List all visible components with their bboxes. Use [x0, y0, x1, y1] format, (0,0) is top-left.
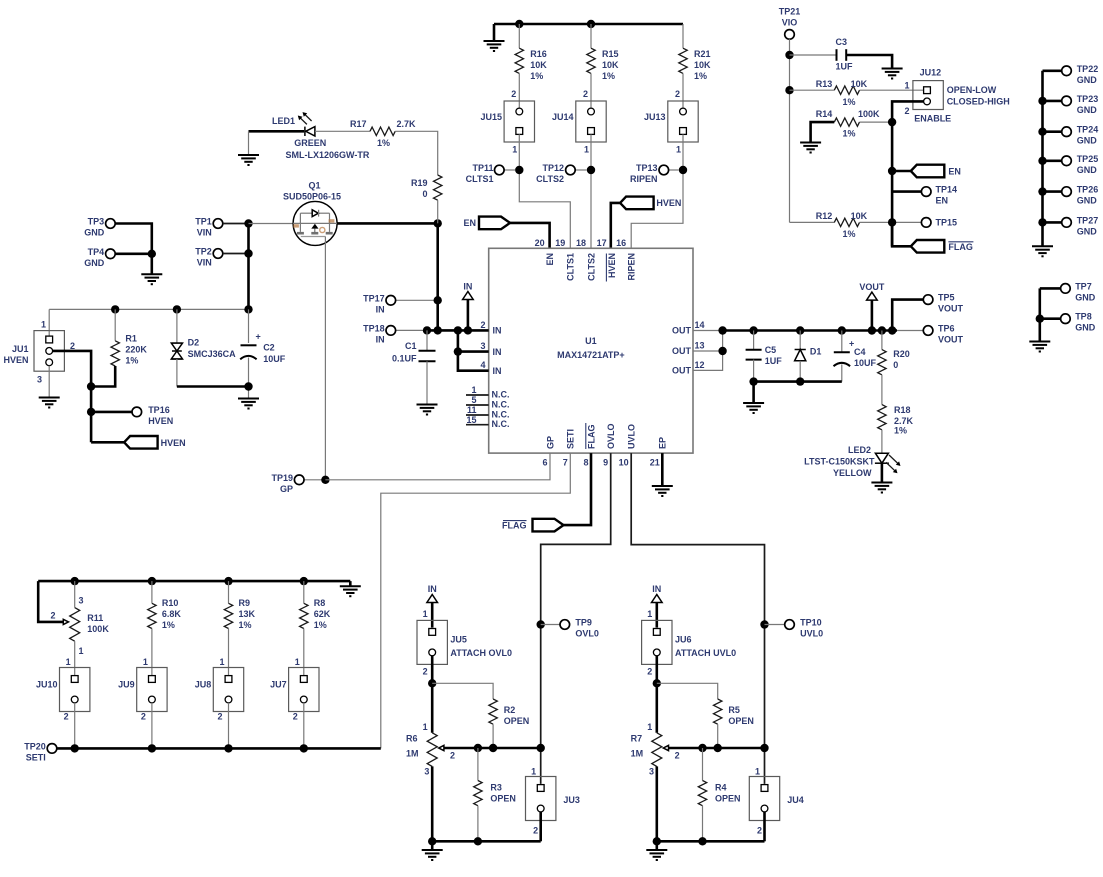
junction SETI/JU10 — [71, 744, 79, 752]
test point TP4 — [84, 247, 115, 268]
svg-text:TP12: TP12 — [542, 163, 564, 173]
wire LED2 cathode stub — [881, 463, 884, 482]
svg-text:VIO: VIO — [782, 18, 798, 28]
svg-text:TP24: TP24 — [1077, 125, 1099, 135]
wire R1 top stub — [114, 309, 116, 340]
power symbol IN (JU6) — [652, 584, 663, 603]
svg-text:C3: C3 — [836, 37, 848, 47]
svg-text:OUT: OUT — [672, 326, 692, 336]
svg-text:1%: 1% — [377, 138, 390, 148]
wire rail ground stub — [349, 581, 352, 586]
jumper JU13 — [644, 101, 698, 142]
junction IN/main — [434, 326, 442, 334]
svg-text:19: 19 — [555, 238, 565, 248]
junction rail/C5 gnd — [749, 377, 757, 385]
svg-text:R5: R5 — [728, 705, 740, 715]
wire VOUT bus — [723, 329, 897, 332]
pin 12 (OUT) of U1 — [672, 360, 705, 376]
ground (C1) — [417, 405, 438, 415]
wire EN node to flag — [892, 170, 911, 173]
pin 10 (UVLO) of U1 — [619, 424, 637, 468]
junction bus/D1 — [796, 326, 804, 334]
svg-text:1: 1 — [143, 657, 148, 667]
wire bottom ground rail (R6) — [432, 840, 541, 843]
pin 17 (HVEN) of U1 — [597, 238, 617, 282]
ground (divider rail) — [340, 586, 361, 596]
LED LED1 GREEN SML-LX1206GW-TR — [272, 112, 370, 160]
junction TP13/RIPEN — [679, 166, 687, 174]
svg-text:1: 1 — [423, 722, 428, 732]
wire R20 top stub — [881, 331, 883, 350]
wire R1 bottom to HVEN node — [91, 366, 115, 387]
svg-text:TP10: TP10 — [800, 618, 822, 628]
svg-text:GND: GND — [1077, 75, 1098, 85]
wire JU12 pin2 to EN node — [892, 101, 924, 246]
svg-text:1M: 1M — [631, 748, 644, 758]
svg-text:2: 2 — [904, 106, 909, 116]
jumper JU15 — [480, 101, 534, 142]
svg-text:OPEN: OPEN — [490, 794, 516, 804]
pin 18 (CLTS2) of U1 — [576, 238, 596, 281]
wire JU15 pin1 to CLTS1 bend — [519, 134, 570, 248]
wire U1 pin14 OUT stub — [693, 330, 723, 332]
capacitor C2 10UF — [240, 332, 286, 364]
wire HVEN flag to U1 pin17 — [611, 203, 620, 248]
svg-text:1%: 1% — [694, 71, 707, 81]
svg-text:IN: IN — [652, 584, 661, 594]
wire R7 bottom — [655, 766, 658, 841]
svg-text:JU6: JU6 — [675, 635, 692, 645]
wire JU5 pin2 down — [431, 656, 434, 733]
svg-text:1: 1 — [584, 145, 589, 155]
wire C2 top stub — [248, 309, 250, 343]
wire R14 to EN node — [860, 121, 893, 123]
svg-text:2.7K: 2.7K — [397, 119, 417, 129]
svg-text:TP20: TP20 — [24, 741, 46, 751]
capacitor C3 1UF — [835, 37, 853, 72]
svg-text:R20: R20 — [893, 349, 910, 359]
svg-text:FLAG: FLAG — [948, 242, 973, 252]
junction bus/VOUT arrow — [868, 326, 876, 334]
wire EP pin21 ground stub — [661, 453, 664, 486]
svg-text:Q1: Q1 — [308, 181, 320, 191]
wire R8 top stub — [303, 581, 305, 603]
wire TP1 to VIN node — [223, 223, 249, 225]
potentiometer R6 1M — [406, 722, 455, 776]
test point TP23 — [1043, 94, 1099, 115]
junction SETI/JU9 — [148, 744, 156, 752]
jumper JU7 — [270, 668, 319, 712]
wire R19 bottom to drain node — [437, 200, 439, 223]
junction SETI/JU8 — [224, 744, 232, 752]
wire R15 top stub — [590, 24, 592, 48]
test point TP19 — [271, 473, 325, 494]
junction TP17/IN — [434, 296, 442, 304]
svg-text:JU5: JU5 — [450, 635, 467, 645]
wire drain node down to IN net — [436, 223, 439, 330]
svg-text:GND: GND — [1075, 323, 1096, 333]
ground (output caps) — [743, 403, 764, 413]
test point TP15 — [921, 217, 957, 227]
svg-text:HVEN: HVEN — [3, 355, 28, 365]
jumper JU9 — [118, 668, 167, 712]
test point TP11 — [466, 163, 515, 184]
svg-text:1%: 1% — [843, 129, 856, 139]
junction rail/R3 — [474, 837, 482, 845]
jumper JU6 ATTACH UVL0 — [642, 620, 737, 664]
junction chain/TP8 — [1036, 315, 1044, 323]
junction rail/C2 — [244, 305, 252, 313]
svg-text:HVEN: HVEN — [656, 198, 681, 208]
wire TP22-TP27 ground chain — [1041, 71, 1044, 247]
svg-text:62K: 62K — [314, 609, 331, 619]
wire R3 bottom — [477, 806, 479, 842]
svg-text:R18: R18 — [894, 405, 911, 415]
test point TP2 — [195, 247, 223, 268]
svg-text:FLAG: FLAG — [586, 425, 596, 450]
pin 15 (N.C.) of U1 — [466, 415, 510, 429]
junction bus/C5 — [749, 326, 757, 334]
svg-text:TP3: TP3 — [88, 217, 105, 227]
svg-text:N.C.: N.C. — [492, 410, 510, 420]
wire R6 wiper row — [444, 747, 541, 750]
svg-text:1: 1 — [647, 609, 652, 619]
junction C2/ground rail — [244, 382, 252, 390]
svg-text:TP18: TP18 — [363, 323, 385, 333]
svg-text:1%: 1% — [162, 620, 175, 630]
test point TP22 — [1043, 64, 1099, 85]
wire VIO to R13 — [790, 89, 835, 91]
svg-text:OUT: OUT — [672, 366, 692, 376]
svg-text:TP15: TP15 — [936, 217, 958, 227]
resistor R18 — [878, 405, 914, 436]
test point TP9 — [541, 618, 599, 639]
ground (TP7/TP8) — [1029, 342, 1050, 352]
svg-text:1: 1 — [79, 646, 84, 656]
svg-text:RIPEN: RIPEN — [627, 253, 637, 281]
test point TP1 — [195, 217, 223, 238]
pin 4 (IN) of U1 — [480, 360, 501, 376]
wire JU3 pin2 to rail — [539, 812, 542, 841]
wire EN flag to U1 pin20 — [510, 223, 550, 248]
svg-text:TP27: TP27 — [1077, 215, 1099, 225]
wire R21 to JU13 pin2 — [682, 73, 684, 108]
wire LED1 ground stub — [248, 131, 250, 155]
svg-text:GP: GP — [280, 484, 293, 494]
wire Q1 gate down to GP net — [324, 237, 326, 480]
svg-text:TP26: TP26 — [1077, 185, 1099, 195]
test point TP24 — [1043, 125, 1099, 146]
pin 19 (CLTS1) of U1 — [555, 238, 575, 281]
wire U1 pin13 OUT stub — [693, 350, 723, 352]
resistor R2 OPEN — [489, 699, 529, 726]
svg-text:2: 2 — [70, 341, 75, 351]
svg-text:20: 20 — [535, 238, 545, 248]
svg-text:OPEN: OPEN — [504, 716, 530, 726]
svg-text:TP9: TP9 — [575, 618, 592, 628]
junction EN/flag — [888, 167, 896, 175]
svg-text:TP5: TP5 — [938, 293, 955, 303]
svg-text:YELLOW: YELLOW — [833, 468, 872, 478]
svg-text:0.1UF: 0.1UF — [392, 353, 417, 363]
svg-text:12: 12 — [695, 360, 705, 370]
svg-text:CLTS2: CLTS2 — [586, 253, 596, 281]
svg-text:0: 0 — [893, 360, 898, 370]
wire TP5 riser — [892, 300, 923, 331]
resistor R14 — [816, 109, 880, 139]
net flag EN (JU12 section) — [911, 165, 961, 178]
net flag HVEN (JU1 section) — [124, 436, 186, 449]
wire JU7 pin2 to SETI rail — [303, 703, 305, 749]
jumper JU14 — [552, 101, 606, 142]
svg-text:3: 3 — [424, 766, 429, 776]
svg-text:ATTACH OVL0: ATTACH OVL0 — [450, 648, 512, 658]
svg-text:R8: R8 — [314, 598, 326, 608]
resistor R10 — [148, 598, 182, 630]
junction chain/TP24 — [1038, 128, 1046, 136]
svg-text:ENABLE: ENABLE — [914, 114, 951, 124]
wire SETI rail — [57, 747, 381, 750]
svg-text:JU10: JU10 — [36, 679, 58, 689]
svg-text:1UF: 1UF — [765, 356, 783, 366]
svg-text:IN: IN — [376, 304, 385, 314]
junction JU5/R2 — [428, 679, 436, 687]
jumper JU5 ATTACH OVL0 — [417, 620, 512, 664]
svg-text:OPEN: OPEN — [715, 794, 741, 804]
svg-text:1: 1 — [647, 722, 652, 732]
svg-text:EN: EN — [936, 196, 949, 206]
wire R7 wiper row — [669, 747, 765, 750]
wire TP2 to VIN node — [223, 253, 249, 255]
wire TP4 to ground node — [115, 253, 152, 256]
wire R10 to jumper — [151, 629, 153, 676]
junction EN/R14 — [888, 118, 896, 126]
svg-text:1: 1 — [755, 766, 760, 776]
pin 9 (OVLO) of U1 — [603, 423, 616, 467]
wire D2/C2 bottom rail — [177, 385, 249, 388]
svg-text:2: 2 — [293, 712, 298, 722]
svg-text:10: 10 — [619, 458, 629, 468]
svg-text:C1: C1 — [405, 341, 417, 351]
svg-text:GND: GND — [84, 258, 105, 268]
svg-text:TP16: TP16 — [148, 405, 170, 415]
test point TP25 — [1043, 154, 1099, 175]
svg-text:1: 1 — [904, 81, 909, 91]
svg-text:JU12: JU12 — [920, 68, 942, 78]
svg-text:JU4: JU4 — [787, 795, 804, 805]
wire top pull-down rail (CLTS1/CLTS2/RIPEN to GND) — [494, 23, 683, 26]
wire JU10 pin2 to SETI rail — [74, 703, 76, 749]
test point TP27 — [1043, 215, 1099, 236]
ground (TP22-TP27) — [1032, 246, 1053, 256]
potentiometer R11 100K — [50, 596, 109, 657]
wire D2 bottom to rail — [176, 359, 178, 387]
svg-text:1%: 1% — [602, 71, 615, 81]
svg-text:TP22: TP22 — [1077, 64, 1099, 74]
junction OUT pins 13 — [718, 347, 726, 355]
wire TP15 node to FLAG flag — [892, 222, 911, 246]
junction wiper/R5 — [714, 744, 722, 752]
test point TP26 — [1043, 185, 1099, 206]
svg-text:2: 2 — [757, 826, 762, 836]
test point TP8 — [1040, 312, 1096, 333]
svg-text:JU14: JU14 — [552, 112, 574, 122]
wire IN arrow to JU5 — [431, 603, 434, 628]
svg-text:JU3: JU3 — [563, 795, 580, 805]
wire VIN vertical to rail — [247, 224, 250, 310]
svg-text:R7: R7 — [631, 733, 643, 743]
wire U1 pin10 UVLO down — [631, 453, 764, 784]
jumper JU3 — [526, 777, 580, 821]
resistor R9 — [224, 598, 255, 630]
svg-text:10UF: 10UF — [854, 358, 877, 368]
jumper JU4 — [749, 777, 803, 821]
net flag EN (to U1 pin20) — [463, 217, 510, 230]
wire to U1 pin3 — [458, 350, 489, 353]
svg-text:OPEN: OPEN — [728, 716, 754, 726]
junction SETI/JU7 — [300, 744, 308, 752]
wire R16 to JU15 pin2 — [518, 73, 520, 108]
svg-text:R6: R6 — [406, 733, 418, 743]
svg-text:EN: EN — [948, 167, 961, 177]
svg-text:TP8: TP8 — [1075, 312, 1092, 322]
junction chain/TP25 — [1038, 157, 1046, 165]
wire ground stub — [493, 24, 496, 41]
capacitor C1 0.1UF — [392, 341, 436, 363]
svg-text:EN: EN — [545, 253, 555, 266]
svg-text:1: 1 — [41, 320, 46, 330]
svg-text:TP6: TP6 — [938, 324, 955, 334]
svg-text:7: 7 — [563, 458, 568, 468]
wire JU4 pin2 to rail — [763, 812, 766, 841]
wire Q1 drain to R19 node — [337, 222, 438, 225]
svg-text:VOUT: VOUT — [938, 304, 964, 314]
svg-text:GND: GND — [1077, 136, 1098, 146]
wire ground stub (R6) — [431, 841, 434, 850]
net flag HVEN (to U1 pin17) — [620, 197, 681, 210]
svg-text:1: 1 — [471, 385, 476, 395]
resistor R4 OPEN — [698, 781, 740, 806]
wire JU13 pin1 to U1 RIPEN — [631, 134, 683, 248]
wire R13 to JU12 pin1 — [860, 89, 924, 91]
svg-text:VIN: VIN — [197, 228, 212, 238]
svg-text:2: 2 — [423, 667, 428, 677]
pin 13 (OUT) of U1 — [672, 341, 705, 357]
svg-text:13: 13 — [695, 341, 705, 351]
svg-text:JU7: JU7 — [270, 679, 287, 689]
svg-text:SETI: SETI — [566, 429, 576, 449]
svg-text:1: 1 — [423, 609, 428, 619]
svg-text:R17: R17 — [350, 119, 367, 129]
svg-text:2: 2 — [647, 667, 652, 677]
svg-text:1%: 1% — [239, 620, 252, 630]
wire D1 top stub — [799, 331, 801, 350]
pin 1 (N.C.) of U1 — [466, 385, 510, 399]
wire VOUT arrow stub — [871, 300, 874, 330]
junction rail/R16 — [515, 20, 523, 28]
svg-text:13K: 13K — [239, 609, 256, 619]
pin 16 (RIPEN) of U1 — [616, 238, 636, 281]
diode D2 SMCJ36CA (TVS) — [171, 338, 236, 360]
svg-text:1: 1 — [219, 657, 224, 667]
test point TP20 — [24, 741, 57, 762]
wire R10 top stub — [151, 581, 153, 603]
svg-text:GND: GND — [1077, 165, 1098, 175]
jumper JU12 ENABLE — [904, 68, 1009, 124]
pin 6 (GP) of U1 — [542, 436, 555, 468]
resistor R5 OPEN — [714, 699, 754, 726]
junction OVL0/TP9 — [537, 620, 545, 628]
test point TP10 — [765, 618, 824, 639]
LED LED2 LTST-C150KSKT YELLOW — [804, 445, 900, 478]
ground (R6) — [422, 850, 443, 860]
pin 8 (FLAG) of U1 — [583, 423, 596, 468]
svg-text:8: 8 — [583, 458, 588, 468]
ground (LED2) — [871, 483, 892, 493]
ground (TP3/TP4) — [141, 274, 162, 284]
svg-text:R16: R16 — [530, 49, 547, 59]
junction TP1/VIN — [244, 219, 252, 227]
power symbol IN (JU5) — [427, 584, 438, 603]
svg-text:JU1: JU1 — [12, 344, 29, 354]
wire IN arrow to JU6 — [655, 603, 658, 628]
svg-text:1M: 1M — [406, 748, 419, 758]
wire R4 bottom — [702, 806, 704, 842]
svg-text:2: 2 — [64, 712, 69, 722]
wire R3 top — [477, 748, 479, 781]
svg-text:+: + — [256, 332, 261, 342]
pin 3 (IN) of U1 — [480, 341, 501, 357]
resistor R13 — [816, 79, 868, 107]
op-amp U1 MAX14721ATP+ body — [489, 248, 693, 453]
wire LED1 cathode to ground bend — [249, 130, 305, 133]
svg-text:IN: IN — [493, 347, 502, 357]
svg-text:R2: R2 — [504, 705, 516, 715]
junction rail — [224, 577, 232, 585]
svg-text:TP25: TP25 — [1077, 154, 1099, 164]
wire C5 top stub — [753, 331, 755, 350]
wire ground node down — [151, 254, 154, 274]
wire R18 to LED2 — [881, 430, 883, 453]
wire C4 top stub — [841, 331, 843, 353]
junction rail — [148, 577, 156, 585]
ground (R14) — [800, 143, 821, 153]
svg-text:GND: GND — [1075, 292, 1096, 302]
potentiometer R7 1M — [631, 722, 680, 776]
svg-text:R13: R13 — [816, 79, 833, 89]
junction Q1 drain/R19 — [434, 219, 442, 227]
svg-text:5: 5 — [471, 395, 476, 405]
wire pin3/pin4 branch — [458, 330, 489, 370]
wire TP7/TP8 ground chain — [1039, 288, 1042, 341]
test point TP18 — [363, 323, 427, 344]
svg-text:VIN: VIN — [197, 258, 212, 268]
wire U1 pin7 SETI to divider — [381, 453, 571, 748]
svg-text:2: 2 — [675, 89, 680, 99]
test point TP6 — [923, 324, 963, 345]
svg-text:1: 1 — [295, 657, 300, 667]
svg-text:100K: 100K — [858, 109, 880, 119]
wire rail to R21 — [682, 24, 684, 48]
wire VOUT bus to TP6 — [897, 330, 923, 332]
svg-text:CLTS2: CLTS2 — [536, 174, 564, 184]
pin 7 (SETI) of U1 — [563, 429, 576, 468]
svg-text:EN: EN — [463, 218, 476, 228]
svg-text:16: 16 — [616, 238, 626, 248]
svg-text:1%: 1% — [843, 97, 856, 107]
svg-text:OVLO: OVLO — [606, 423, 616, 449]
ground (C2) — [238, 399, 259, 409]
